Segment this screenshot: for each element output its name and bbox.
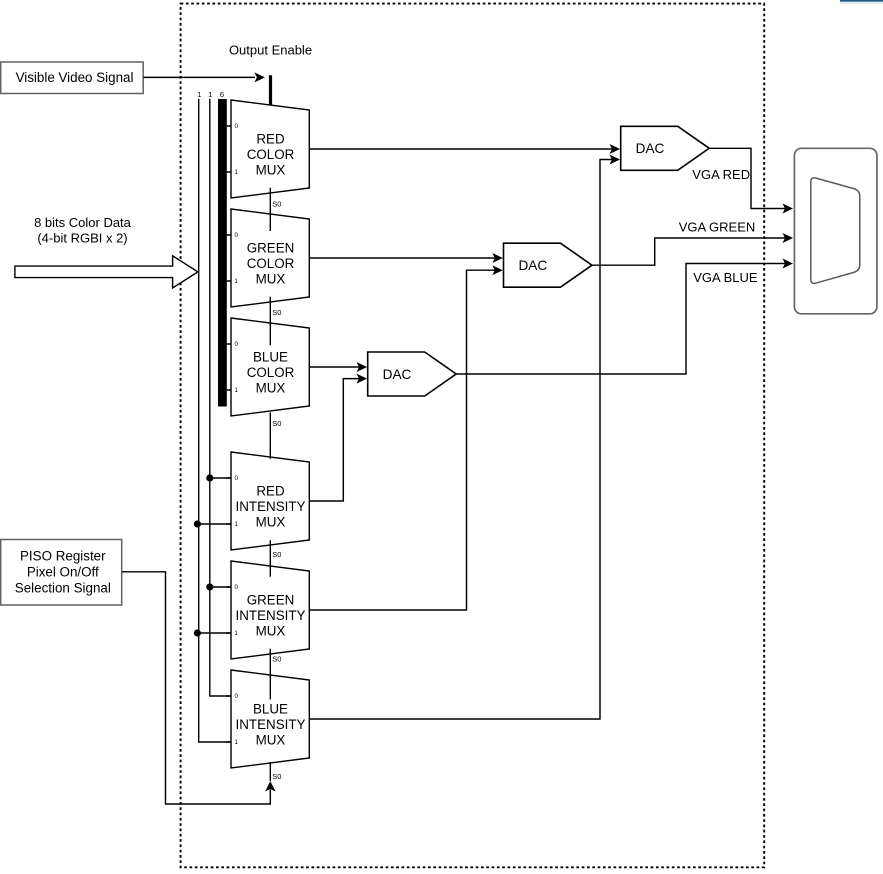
svg-text:Pixel On/Off: Pixel On/Off — [27, 565, 99, 580]
svg-text:1: 1 — [234, 630, 238, 637]
wire bus line 1 down to BLUE INTENSITY MUX input 1 — [199, 99, 232, 742]
svg-text:VGA BLUE: VGA BLUE — [693, 270, 758, 285]
svg-text:S0: S0 — [272, 419, 281, 428]
wire stub GREEN INTENSITY MUX input 1 — [197, 632, 231, 634]
svg-text:(4-bit RGBI x 2): (4-bit RGBI x 2) — [37, 231, 127, 246]
wire stub RED INTENSITY MUX input 0 — [210, 477, 232, 479]
svg-text:1: 1 — [234, 169, 238, 176]
svg-text:MUX: MUX — [256, 163, 286, 178]
wire GREEN INTENSITY MUX output to DAC U2 input 2 — [309, 265, 503, 610]
wire stub GREEN INTENSITY MUX input 0 — [210, 586, 232, 588]
select chain S0 RED COLOR to GREEN COLOR — [269, 188, 271, 231]
select chain S0 BLUE COLOR to RED INTENSITY — [269, 412, 271, 458]
svg-text:MUX: MUX — [256, 381, 286, 396]
svg-text:GREEN: GREEN — [247, 241, 295, 256]
blue bar top-right — [840, 0, 883, 2]
svg-text:DAC: DAC — [383, 367, 412, 382]
svg-text:MUX: MUX — [256, 272, 286, 287]
svg-text:GREEN: GREEN — [247, 593, 295, 608]
svg-text:1: 1 — [208, 90, 212, 99]
junction dot GREEN INTENSITY MUX input 0 — [206, 583, 213, 590]
svg-text:VGA GREEN: VGA GREEN — [679, 219, 756, 234]
wire Visible Video Signal to Output Enable — [144, 72, 265, 82]
svg-text:S0: S0 — [272, 200, 281, 209]
select chain S0 GREEN COLOR to BLUE COLOR — [269, 297, 271, 346]
svg-text:1: 1 — [234, 521, 238, 528]
svg-text:S0: S0 — [272, 308, 281, 317]
svg-text:1: 1 — [234, 739, 238, 746]
wire PISO Register to BLUE INTENSITY MUX select S0 — [122, 572, 276, 804]
svg-text:1: 1 — [234, 278, 238, 285]
svg-text:S0: S0 — [272, 550, 281, 559]
svg-text:BLUE: BLUE — [253, 350, 288, 365]
junction dot RED INTENSITY MUX input 1 — [194, 520, 201, 527]
svg-text:Visible Video Signal: Visible Video Signal — [16, 70, 134, 85]
svg-text:DAC: DAC — [636, 141, 665, 156]
Output Enable thick stub into RED COLOR MUX — [269, 75, 272, 105]
svg-text:INTENSITY: INTENSITY — [236, 717, 306, 732]
mux GREEN COLOR MUX — [226, 209, 309, 317]
svg-text:INTENSITY: INTENSITY — [236, 499, 306, 514]
select stub S0 below BLUE INTENSITY MUX — [269, 762, 271, 781]
box PISO Register — [1, 540, 122, 606]
svg-text:INTENSITY: INTENSITY — [236, 608, 306, 623]
svg-text:RED: RED — [256, 484, 285, 499]
svg-text:COLOR: COLOR — [247, 256, 295, 271]
wire RED COLOR MUX output to DAC U1 — [309, 144, 620, 154]
svg-text:0: 0 — [234, 123, 238, 130]
select chain S0 GREEN INTENSITY to BLUE INTENSITY — [269, 649, 271, 700]
bus bar 6-bit thick — [218, 99, 227, 407]
svg-text:COLOR: COLOR — [247, 365, 295, 380]
mux RED COLOR MUX — [226, 100, 309, 209]
label 8 bits Color Data — [34, 215, 132, 246]
svg-text:6: 6 — [220, 90, 224, 99]
dashed boundary frame — [181, 4, 765, 868]
wire RED INTENSITY MUX output to DAC U3 input 2 — [309, 374, 367, 501]
svg-text:0: 0 — [234, 341, 238, 348]
svg-text:0: 0 — [234, 584, 238, 591]
wire BLUE INTENSITY MUX output to DAC U1 input 2 — [309, 155, 620, 720]
wire DAC U3 output VGA BLUE to monitor — [456, 259, 793, 375]
mux RED INTENSITY MUX — [226, 452, 309, 559]
svg-text:MUX: MUX — [256, 733, 286, 748]
svg-text:Selection Signal: Selection Signal — [15, 581, 111, 596]
wire stub RED INTENSITY MUX input 1 — [197, 523, 231, 525]
monitor VGA display — [794, 148, 877, 313]
svg-text:1: 1 — [234, 387, 238, 394]
mux GREEN INTENSITY MUX — [226, 561, 309, 664]
svg-text:MUX: MUX — [256, 515, 286, 530]
junction dot RED INTENSITY MUX input 0 — [206, 474, 213, 481]
mux BLUE COLOR MUX — [226, 318, 309, 428]
svg-text:COLOR: COLOR — [247, 147, 295, 162]
svg-text:0: 0 — [234, 475, 238, 482]
svg-text:8 bits Color Data: 8 bits Color Data — [34, 215, 132, 230]
wire BLUE COLOR MUX output to DAC U3 — [309, 362, 367, 372]
wire GREEN COLOR MUX output to DAC U2 — [309, 253, 503, 263]
select chain S0 RED INTENSITY to GREEN INTENSITY — [269, 540, 271, 577]
mux BLUE INTENSITY MUX — [226, 670, 309, 781]
svg-text:0: 0 — [234, 232, 238, 239]
svg-text:S0: S0 — [272, 655, 281, 664]
svg-text:0: 0 — [234, 693, 238, 700]
svg-text:BLUE: BLUE — [253, 702, 288, 717]
svg-text:PISO Register: PISO Register — [20, 549, 106, 564]
wire bus line 2 down to BLUE INTENSITY MUX input 0 — [210, 99, 232, 696]
DAC U2 (green channel) — [504, 243, 593, 287]
wire DAC U1 output VGA RED to monitor — [709, 148, 793, 213]
svg-text:MUX: MUX — [256, 624, 286, 639]
svg-text:DAC: DAC — [518, 258, 547, 273]
big input arrow 8-bit color data bus — [15, 256, 198, 288]
wire DAC U2 output VGA GREEN to monitor — [592, 233, 793, 265]
svg-text:S0: S0 — [272, 772, 281, 781]
VGA connector D-sub — [811, 178, 860, 284]
svg-text:1: 1 — [197, 90, 201, 99]
svg-text:RED: RED — [256, 132, 285, 147]
svg-text:VGA RED: VGA RED — [692, 167, 750, 182]
DAC U1 (red channel) — [621, 126, 710, 170]
box Visible Video Signal — [1, 62, 144, 94]
svg-text:Output Enable: Output Enable — [229, 43, 312, 58]
DAC U3 (blue channel) — [368, 352, 457, 396]
junction dot GREEN INTENSITY MUX input 1 — [194, 629, 201, 636]
